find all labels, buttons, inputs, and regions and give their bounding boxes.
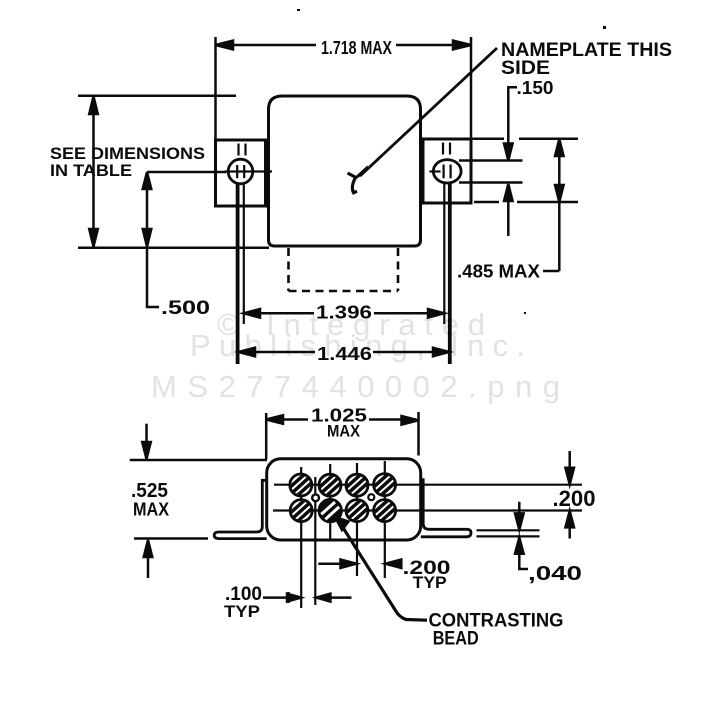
terminal B1 [290, 500, 312, 522]
right flange bracket [421, 480, 471, 537]
1.025 left extension line [265, 413, 268, 459]
hidden outline dashed right [397, 248, 400, 291]
terminal column 4 center line [384, 461, 386, 578]
1.025 dimension line segments [269, 418, 308, 421]
svg-text:.500: .500 [161, 298, 210, 319]
.200 row spacing dimension upper line [568, 451, 571, 469]
.485 MAX dimension line [558, 140, 561, 271]
hidden outline dashed bottom [289, 290, 399, 293]
.485 top arrow (up) [555, 139, 564, 156]
.485 elbow [543, 270, 559, 273]
.100 TYP right arrow (left pointing) [316, 594, 330, 602]
.500 connector to hole center [147, 171, 226, 174]
flange foot extension lines (.040) [477, 529, 540, 531]
right hole slot marks [443, 165, 445, 179]
.040 upper arrow (down) [515, 513, 524, 529]
.500 top arrow [143, 172, 152, 189]
dimension 1.396 line segments [246, 312, 314, 315]
SEE DIMENSIONS top arrow [89, 96, 98, 114]
.040 lower arrow (up) [515, 537, 524, 553]
contrasting bead terminal B2 [319, 499, 342, 522]
.040 elbow [519, 553, 528, 569]
nameplate leader hook tail [352, 178, 357, 193]
svg-text:,040: ,040 [528, 563, 582, 585]
left tab hole [228, 159, 253, 184]
terminal A3 [346, 474, 368, 496]
.500 leader elbow [147, 248, 159, 307]
.500 bottom arrow [143, 229, 152, 247]
terminal column 2 center line [329, 464, 331, 540]
relay body outline (top view) [269, 96, 421, 246]
terminal B4 [374, 500, 396, 522]
.200 TYP left arrow (right pointing) [341, 560, 357, 569]
.525 upper arrow line [145, 424, 148, 443]
body top edge extension line left [78, 94, 236, 97]
.100 TYP dimension left tail [263, 596, 288, 599]
vertical dimension SEE DIMENSIONS line [92, 99, 95, 244]
svg-text:IN TABLE: IN TABLE [50, 161, 132, 180]
1.025 left arrow [266, 415, 283, 424]
.150 upper arrow (down) [504, 144, 513, 161]
.150 leader elbow [508, 87, 517, 144]
left lead inner line [243, 184, 245, 324]
terminal B3 [346, 500, 368, 522]
nameplate leader wing [348, 173, 357, 178]
.100 TYP right tail [330, 596, 352, 599]
.200 TYP right arrow (left pointing) [385, 560, 401, 569]
dimension 1.718 MAX line left segment [222, 44, 316, 47]
SEE DIMENSIONS bottom arrow [89, 229, 98, 247]
1.446 left arrow [239, 348, 255, 357]
bottom plane extension line [78, 247, 269, 250]
right lead outer line [448, 183, 452, 364]
dimension 1.718 MAX line right segment [396, 44, 465, 47]
hidden outline dashed left [287, 248, 290, 291]
right hole bottom extension line [459, 181, 523, 184]
right tab top extension line [472, 138, 504, 141]
right hole top extension line [459, 159, 523, 162]
.100 TYP tick [287, 592, 289, 603]
1.446 right arrow [433, 348, 449, 357]
right mounting tab [423, 139, 471, 203]
right tab bottom extension line [474, 201, 499, 204]
.100 TYP left arrow (right pointing) [287, 594, 301, 602]
svg-text:.485 MAX: .485 MAX [457, 262, 540, 282]
dimension 1.718 MAX left arrow [216, 41, 234, 50]
svg-text:MS277440002.png: MS277440002.png [151, 369, 560, 404]
svg-text:1.446: 1.446 [317, 344, 372, 364]
.200 lower arrow (up) [565, 511, 574, 528]
terminal row 2 center line [273, 509, 582, 511]
svg-text:TYP: TYP [413, 573, 447, 592]
terminal A1 [290, 474, 312, 496]
left mounting tab [216, 140, 266, 206]
right lead inner line [443, 183, 445, 324]
.200 upper arrow (down) [565, 468, 574, 485]
left tab hole center line [225, 170, 273, 172]
contrasting bead leader line [341, 525, 427, 621]
1.396 left arrow [244, 309, 260, 318]
right hole center stub [430, 170, 441, 172]
.150 lower arrow (up) [504, 184, 513, 201]
.500 dimension line [146, 174, 149, 244]
left hole slot marks [236, 165, 238, 178]
.040 upper arrow line [518, 502, 521, 515]
dimension 1.718 MAX left extension line [214, 37, 217, 140]
svg-text:MAX: MAX [327, 422, 361, 441]
relay body outline (bottom view) [267, 459, 421, 540]
.485 bottom arrow (down) [555, 185, 564, 202]
terminal A2 [319, 474, 341, 496]
index bead column line [314, 477, 316, 605]
.150 lower tail [507, 201, 510, 236]
nameplate leader line [360, 48, 497, 176]
index bead mark right [368, 494, 374, 500]
right tab crimp marks [442, 143, 444, 155]
terminal column 3 center line [356, 463, 358, 576]
.525 lower arrow line [147, 556, 150, 578]
svg-text:SIDE: SIDE [501, 58, 550, 79]
terminal column 1 center line [300, 467, 302, 608]
left tab crimp marks [237, 144, 239, 156]
.525 top extension line [130, 459, 267, 462]
contrasting bead leader arrowhead [335, 517, 349, 530]
1.396 right arrow [428, 309, 444, 318]
left flange bracket [214, 480, 267, 538]
dimension 1.718 MAX right extension line [470, 37, 473, 140]
nameplate leader arrowhead [356, 167, 369, 179]
terminal row 1 center line [274, 484, 582, 486]
1.025 right extension line [417, 412, 420, 456]
dimension 1.718 MAX right arrow [453, 41, 471, 50]
left lead outer line [236, 184, 240, 364]
right tab hole [433, 160, 461, 183]
.200 TYP dimension left tail [318, 562, 342, 565]
svg-text:.150: .150 [517, 78, 554, 98]
dimension 1.446 line segments [241, 351, 315, 354]
svg-text:1.396: 1.396 [316, 303, 372, 323]
svg-text:TYP: TYP [224, 602, 260, 621]
.525 upper arrow (down) [142, 442, 151, 459]
svg-text:MAX: MAX [133, 500, 169, 520]
.525 lower arrow (up) [144, 540, 153, 557]
index bead mark left [312, 494, 319, 501]
svg-text:BEAD: BEAD [433, 629, 479, 650]
terminal A4 [374, 474, 396, 496]
.200 lower line [568, 526, 571, 539]
svg-text:1.718 MAX: 1.718 MAX [321, 38, 392, 58]
scan speck dots [603, 26, 606, 29]
1.025 right arrow [402, 416, 419, 425]
svg-text:.200: .200 [553, 486, 596, 511]
.525 bottom extension line [134, 537, 208, 540]
